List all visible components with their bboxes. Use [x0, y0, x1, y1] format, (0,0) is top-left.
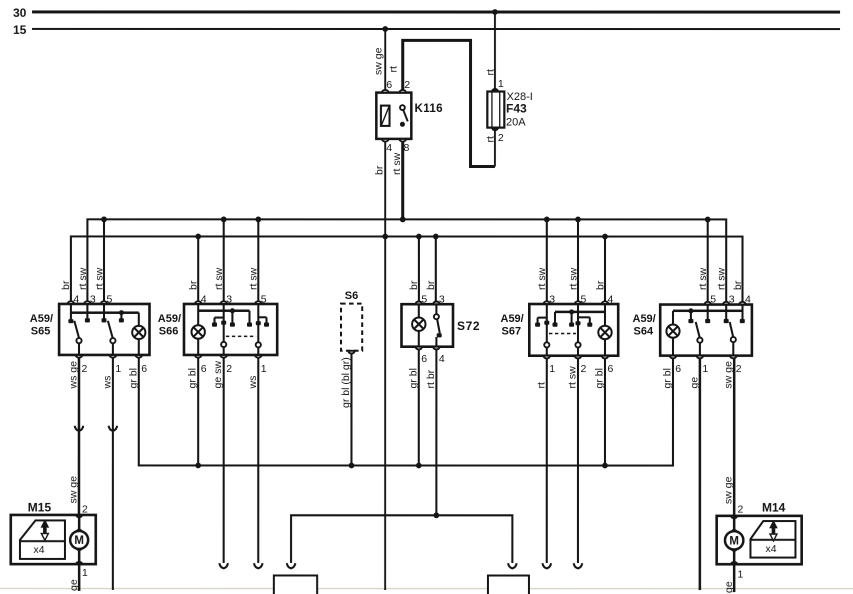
- svg-text:1: 1: [549, 363, 555, 375]
- svg-text:rt: rt: [535, 382, 547, 388]
- svg-text:8: 8: [404, 142, 410, 154]
- svg-text:1: 1: [82, 567, 88, 579]
- svg-text:S6: S6: [345, 290, 358, 302]
- svg-text:4: 4: [745, 294, 751, 306]
- svg-text:br: br: [732, 280, 744, 290]
- svg-text:A59/: A59/: [500, 313, 523, 325]
- svg-text:1: 1: [702, 363, 708, 375]
- svg-text:M: M: [74, 535, 84, 547]
- svg-text:5: 5: [710, 294, 716, 306]
- svg-text:rt: rt: [388, 66, 400, 72]
- svg-text:sw ge: sw ge: [723, 361, 735, 389]
- svg-text:sw ge: sw ge: [723, 476, 735, 504]
- svg-text:F43: F43: [506, 102, 527, 116]
- svg-text:rt sw: rt sw: [213, 267, 225, 290]
- svg-text:x4: x4: [765, 543, 776, 555]
- svg-text:6: 6: [201, 363, 207, 375]
- svg-text:br: br: [425, 280, 437, 290]
- svg-text:2: 2: [226, 363, 232, 375]
- svg-text:2: 2: [580, 363, 586, 375]
- svg-text:rt sw: rt sw: [716, 267, 728, 290]
- svg-text:S64: S64: [633, 326, 653, 338]
- svg-text:1: 1: [498, 78, 504, 90]
- svg-text:rt sw: rt sw: [567, 267, 579, 290]
- svg-text:rt sw: rt sw: [93, 267, 105, 290]
- svg-text:M15: M15: [28, 500, 52, 514]
- svg-text:ge: ge: [688, 377, 700, 389]
- svg-text:S65: S65: [31, 326, 51, 338]
- svg-text:3: 3: [549, 294, 555, 306]
- svg-text:sw ge: sw ge: [68, 476, 80, 504]
- svg-text:rt sw: rt sw: [391, 152, 403, 175]
- svg-text:2: 2: [82, 503, 88, 515]
- svg-text:3: 3: [439, 294, 445, 306]
- svg-text:K116: K116: [415, 103, 443, 115]
- svg-text:gr bl (bl gr): gr bl (bl gr): [340, 357, 352, 408]
- svg-text:ge: ge: [68, 579, 80, 591]
- svg-text:x4: x4: [33, 544, 44, 556]
- svg-text:M14: M14: [762, 501, 786, 515]
- svg-text:5: 5: [421, 294, 427, 306]
- svg-text:br: br: [408, 280, 420, 290]
- svg-text:5: 5: [261, 293, 267, 305]
- svg-text:3: 3: [90, 293, 96, 305]
- svg-text:rt br: rt br: [425, 369, 437, 388]
- svg-text:2: 2: [498, 132, 504, 144]
- svg-text:rt sw: rt sw: [248, 267, 260, 290]
- svg-text:6: 6: [607, 363, 613, 375]
- svg-text:rt sw: rt sw: [697, 267, 709, 290]
- svg-text:5: 5: [106, 293, 112, 305]
- svg-text:4: 4: [201, 293, 207, 305]
- svg-text:br: br: [188, 280, 200, 290]
- svg-text:gr bl: gr bl: [187, 368, 199, 388]
- svg-text:ws ge: ws ge: [67, 361, 79, 390]
- svg-text:1: 1: [261, 363, 267, 375]
- svg-text:15: 15: [13, 23, 27, 37]
- svg-text:30: 30: [13, 6, 27, 20]
- svg-text:2: 2: [81, 363, 87, 375]
- svg-text:4: 4: [73, 293, 79, 305]
- svg-text:6: 6: [421, 353, 427, 365]
- svg-text:X28-I: X28-I: [507, 91, 533, 103]
- svg-text:ws: ws: [101, 376, 113, 390]
- svg-text:6: 6: [675, 363, 681, 375]
- svg-text:4: 4: [607, 294, 613, 306]
- svg-text:rt: rt: [484, 136, 496, 142]
- svg-text:S66: S66: [159, 326, 179, 338]
- svg-text:3: 3: [729, 294, 735, 306]
- svg-text:2: 2: [404, 79, 410, 91]
- svg-text:ge: ge: [723, 581, 735, 593]
- svg-text:rt sw: rt sw: [77, 267, 89, 290]
- svg-text:1: 1: [115, 363, 121, 375]
- svg-text:6: 6: [141, 363, 147, 375]
- svg-text:2: 2: [737, 504, 743, 516]
- svg-text:20A: 20A: [506, 117, 526, 129]
- svg-text:sw ge: sw ge: [373, 47, 385, 75]
- svg-text:gr bl: gr bl: [407, 368, 419, 388]
- svg-text:gr bl: gr bl: [127, 368, 139, 388]
- svg-text:ge sw: ge sw: [212, 361, 224, 389]
- svg-text:A59/: A59/: [30, 313, 53, 325]
- svg-text:5: 5: [580, 294, 586, 306]
- svg-text:A59/: A59/: [158, 313, 181, 325]
- svg-text:1: 1: [737, 569, 743, 581]
- svg-text:2: 2: [736, 363, 742, 375]
- svg-text:4: 4: [439, 353, 445, 365]
- svg-text:M: M: [729, 535, 739, 547]
- svg-text:rt sw: rt sw: [566, 366, 578, 389]
- svg-text:S72: S72: [457, 319, 480, 333]
- svg-text:br: br: [60, 280, 72, 290]
- svg-text:gr bl: gr bl: [593, 368, 605, 388]
- svg-text:rt sw: rt sw: [536, 267, 548, 290]
- svg-text:br: br: [374, 165, 386, 175]
- svg-text:S67: S67: [501, 326, 521, 338]
- svg-text:6: 6: [386, 79, 392, 91]
- svg-text:4: 4: [386, 142, 392, 154]
- svg-text:rt: rt: [484, 69, 496, 75]
- svg-text:ws: ws: [247, 376, 259, 390]
- svg-text:A59/: A59/: [632, 313, 655, 325]
- svg-text:3: 3: [226, 293, 232, 305]
- svg-text:br: br: [594, 280, 606, 290]
- svg-text:gr bl: gr bl: [661, 368, 673, 388]
